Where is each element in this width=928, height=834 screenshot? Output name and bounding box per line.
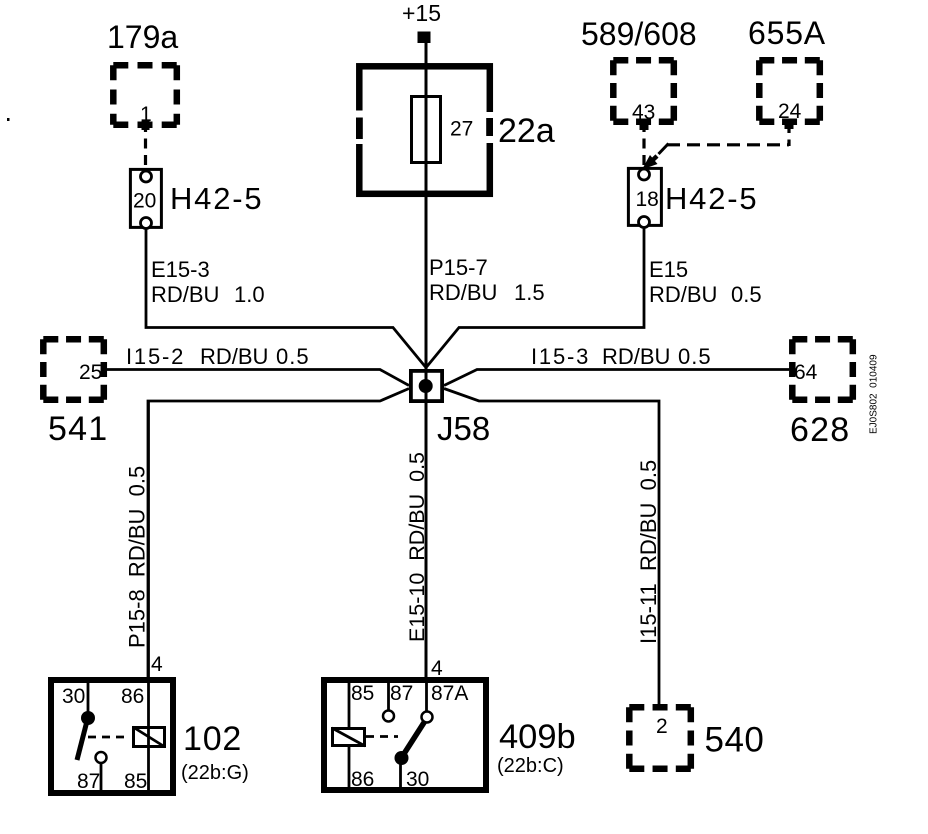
svg-text:RD/BU0.5: RD/BU0.5 [649,282,762,307]
svg-text:RD/BU1.0: RD/BU1.0 [151,282,265,307]
wire P15-8 (junction to relay 102) [148,389,409,678]
svg-text:64: 64 [794,361,818,384]
pin 87 lead [100,763,103,790]
connector H42-5 right (pin 18) [628,168,661,227]
wire I15-11 (junction to connector 540) [444,389,659,705]
fusebox 22a [354,66,495,194]
svg-text:87: 87 [77,770,100,793]
svg-text:87A: 87A [431,682,468,705]
svg-text:541: 541 [48,410,108,448]
svg-text:E15: E15 [649,257,688,282]
svg-text:85: 85 [124,770,147,793]
svg-text:27: 27 [450,118,473,141]
svg-text:P15-7: P15-7 [429,255,488,280]
relay 409b box [324,680,486,790]
svg-text:2: 2 [656,715,668,738]
arrowhead at H42-5 pin [659,144,669,155]
actuation dashed link [88,736,130,739]
pin 85 lead [348,683,351,727]
relay 409b [324,680,486,791]
pin 87A lead [425,683,428,711]
switch lever [400,721,425,760]
svg-text:H42-5: H42-5 [170,181,263,216]
svg-text:87: 87 [390,682,413,705]
pin 87 contact circle [383,711,394,722]
svg-text:589/608: 589/608 [581,16,697,52]
svg-text:E15-10 RD/BU 0.5: E15-10 RD/BU 0.5 [405,452,429,642]
svg-text:86: 86 [121,685,144,708]
wire E15 [427,227,645,367]
switch pivot dot [81,711,95,725]
svg-text:655A: 655A [748,15,826,51]
svg-text:25: 25 [79,361,102,384]
wire through junction [425,369,428,403]
svg-text:H42-5: H42-5 [665,181,758,216]
wire I15-3 [444,370,789,386]
svg-text:(22b:G): (22b:G) [181,762,249,784]
pin 87 lead [387,683,390,710]
svg-text:30: 30 [406,768,429,791]
connector 179a (dashed box) [113,65,177,125]
coil 102 [134,728,165,747]
switch pivot dot [395,751,409,765]
switch lever [77,721,87,760]
coil 409b [333,729,365,746]
pin 30 lead [399,758,402,787]
wire P15-7 (+15 down through fuse to junction and on to relay 409b) [425,43,428,677]
svg-text:409b: 409b [499,718,576,756]
wire pin1 to H42-5 (dashed) [144,122,147,168]
svg-text:43: 43 [632,101,655,124]
connector H42-5 left (pin 20) [130,169,161,228]
svg-text:22a: 22a [498,112,555,150]
actuation dashed link [366,735,398,738]
connector 541 (dashed box, pin 25) [43,339,104,400]
svg-text:179a: 179a [107,19,178,55]
svg-text:20: 20 [133,190,156,213]
svg-text:540: 540 [705,721,765,760]
stray scan speck [7,118,10,121]
svg-text:I15-2RD/BU0.5: I15-2RD/BU0.5 [126,344,310,369]
svg-text:102: 102 [183,720,242,758]
wire E15-3 [146,230,426,368]
svg-text:628: 628 [790,411,850,449]
svg-text:I15-3RD/BU0.5: I15-3RD/BU0.5 [531,344,712,369]
svg-text:I15-11 RD/BU 0.5: I15-11 RD/BU 0.5 [636,460,661,644]
connector 540 (dashed box, pin 2) [629,707,691,769]
svg-text:24: 24 [778,100,802,123]
wire pin24 to H42-5 (dashed) [787,122,790,146]
svg-text:E15-3: E15-3 [151,257,210,282]
pin 30 lead [87,683,90,712]
relay 102 box [51,680,173,793]
svg-text:30: 30 [62,685,85,708]
junction box J58 [411,371,442,401]
connector 628 (dashed box, pin 64) [792,339,853,400]
svg-text:18: 18 [636,188,659,211]
svg-text:4: 4 [151,653,163,676]
wire I15-2 [107,370,409,386]
wire pin43 to H42-5 (dashed) [642,122,645,166]
pin 87 contact circle [96,752,107,763]
svg-text:4: 4 [431,657,443,680]
pin 86 lead [348,747,351,787]
svg-text:(22b:C): (22b:C) [497,755,564,777]
svg-text:EJ0S802 010409: EJ0S802 010409 [869,354,880,434]
svg-text:J58: J58 [437,410,490,447]
svg-text:85: 85 [351,682,374,705]
pin 87A contact circle [422,712,433,723]
svg-text:86: 86 [351,768,374,791]
relay 102 [51,401,173,793]
svg-text:+15: +15 [402,0,441,26]
connector 589/608 (dashed box) [613,60,674,122]
fuse 27 [412,97,441,163]
+15 terminal square [418,32,431,44]
coil lead 86-85 [147,401,150,790]
connector 655A (dashed box) [759,60,820,122]
svg-text:RD/BU1.5: RD/BU1.5 [429,280,545,305]
junction dot J58 [419,379,433,393]
svg-text:P15-8 RD/BU 0.5: P15-8 RD/BU 0.5 [125,466,150,648]
